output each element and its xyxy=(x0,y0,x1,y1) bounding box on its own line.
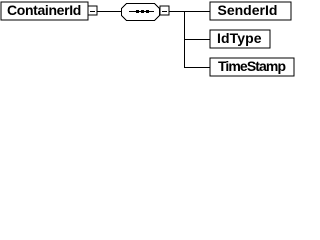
label SenderId xyxy=(218,2,278,18)
wire ContainerId to sequence xyxy=(97,11,121,12)
element box ContainerId xyxy=(1,2,88,20)
sequence octagon xyxy=(122,4,160,21)
element box IdType xyxy=(210,30,270,48)
sequence dot 2 xyxy=(141,10,144,13)
expand/collapse square 2 xyxy=(160,6,169,15)
label TimeStamp xyxy=(218,58,285,74)
label ContainerId xyxy=(7,2,81,18)
expand/collapse square 1 xyxy=(88,6,97,15)
wire sequence to SenderId xyxy=(169,11,210,12)
sequence inner line xyxy=(129,11,154,12)
element box SenderId xyxy=(210,2,291,20)
minus sign 2 xyxy=(162,11,167,12)
vertical trunk xyxy=(184,11,185,68)
minus sign 1 xyxy=(90,11,95,12)
sequence dot 3 xyxy=(146,10,149,13)
element box TimeStamp xyxy=(210,58,294,76)
wire trunk to IdType xyxy=(184,39,210,40)
sequence dot 1 xyxy=(136,10,139,13)
label IdType xyxy=(217,30,262,46)
wire trunk to TimeStamp xyxy=(184,67,210,68)
